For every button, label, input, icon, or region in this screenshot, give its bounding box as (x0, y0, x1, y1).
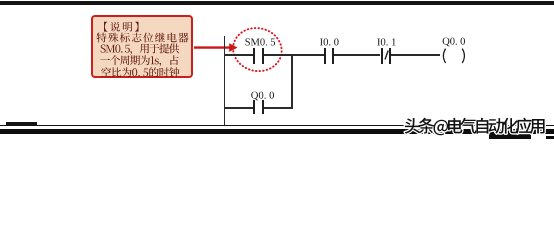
bottom thick bar (0, 129, 554, 135)
text line 【说明】 (104, 22, 139, 32)
wire: branch contact to up-connector (264, 107, 292, 109)
contact SM0.5 (253, 48, 255, 64)
wire: I0.0 to I0.1 (334, 54, 380, 56)
bottom right corner block (546, 136, 554, 139)
bottom right black block (489, 134, 532, 139)
bottom thin line (0, 125, 554, 127)
bottom short bar (6, 122, 37, 125)
text line 特殊标志位继电器 (97, 33, 189, 43)
NC slash (382, 48, 392, 64)
vertical connector branch to main rung (291, 54, 293, 109)
text line SM0.5，用于提供 (101, 44, 180, 55)
contact I0.0 (324, 48, 326, 64)
label SM0.5 (0, 0, 554, 139)
label Q0.0 (coil) (0, 0, 554, 139)
coil Q0.0 (439, 46, 470, 66)
contact I0.1 (NC) (381, 48, 383, 64)
branch: wire rail to Q0.0 contact (224, 107, 253, 109)
left power rail (224, 36, 226, 126)
text line 一个周期为1s，占 (100, 55, 179, 66)
wire: SM0.5 to I0.0 (264, 54, 324, 56)
annotation text paths (red CJK) (0, 0, 554, 139)
annotation box (说明框) (91, 15, 194, 79)
contact Q0.0 (branch) (253, 100, 255, 115)
label Q0.0 (branch) (0, 0, 554, 139)
red arrow from box to SM0.5 (194, 40, 238, 56)
top border bar (0, 1, 554, 6)
label I0.1 (0, 0, 554, 139)
label I0.0 (0, 0, 554, 139)
red dotted ellipse around SM0.5 (230, 25, 286, 75)
text line 空比为0.5的时钟 (101, 67, 179, 77)
wire: I0.1 to coil (391, 54, 440, 56)
wire: rail to SM0.5 left bar (224, 54, 253, 56)
watermark 头条@电气自动化应用 (0, 0, 554, 139)
